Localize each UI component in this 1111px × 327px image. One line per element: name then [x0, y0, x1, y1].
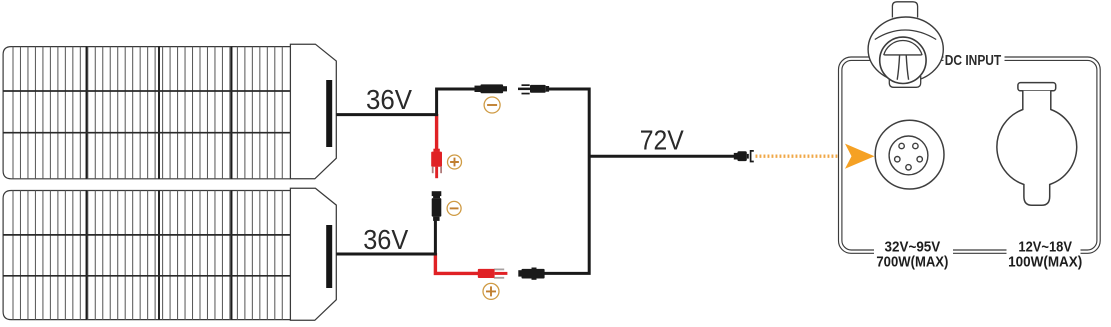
plus polarity symbol (bottom pair) — [483, 283, 499, 299]
DC input cover collar arc — [875, 30, 936, 40]
DC input cover bottom tab — [889, 76, 920, 87]
solar panel PV2 terminal bar — [326, 225, 332, 288]
MC4 female connector PV2 negative (up) — [432, 191, 442, 221]
solar panel PV2 cell boundary lines — [87, 191, 232, 320]
svg-text:100W(MAX): 100W(MAX) — [1008, 254, 1082, 271]
power station DC input panel outer border — [839, 57, 1101, 253]
DC input cover face rim — [884, 41, 922, 56]
wire PV2 output to negative connector — [336, 221, 435, 254]
DC input cover body — [868, 17, 943, 82]
solar panel PV1 horizontal busbars — [3, 91, 290, 133]
orange arrow into DC input — [845, 144, 875, 169]
svg-text:36V: 36V — [366, 84, 412, 115]
DC input cover top tab — [892, 2, 917, 18]
wire string loop right side — [544, 89, 589, 273]
minus polarity symbol (PV2 negative) — [447, 201, 461, 215]
DC input cover face — [880, 37, 926, 83]
svg-text:DC INPUT: DC INPUT — [945, 53, 1002, 69]
DC input cover T-handle — [884, 55, 921, 80]
solar panel PV2 junction flap — [290, 188, 336, 320]
wire 72V output — [589, 155, 734, 158]
car charger port body — [997, 91, 1077, 206]
plus polarity symbol (PV1 positive) — [448, 155, 462, 169]
wire PV2 positive red lead — [435, 253, 478, 273]
MC4 female connector PV1 negative — [475, 84, 508, 93]
border gaps (white masks) — [874, 54, 1081, 257]
5-pin DC input port outer ring — [875, 120, 944, 189]
car charger port lip — [1018, 83, 1056, 91]
svg-text:700W(MAX): 700W(MAX) — [876, 254, 948, 271]
svg-text:36V: 36V — [363, 224, 408, 255]
solar panel PV1 cell boundary lines — [87, 47, 232, 179]
MC4 female connector string return (black) — [518, 268, 544, 280]
solar panel PV2 body — [3, 191, 290, 320]
5-pin DC input port pins — [895, 143, 923, 170]
dashed connection line — [756, 154, 845, 157]
MC4 male connector string negative — [518, 84, 549, 94]
solar panel PV1 body — [3, 47, 290, 179]
5-pin DC input port inner ring — [889, 136, 928, 175]
svg-text:72V: 72V — [640, 124, 684, 155]
DC socket bracket — [751, 151, 754, 162]
solar panel PV2 horizontal busbars — [3, 235, 290, 276]
solar panel PV1 junction flap — [290, 44, 336, 179]
MC4 male connector string positive (red) — [478, 269, 508, 279]
MC4 male connector PV1 positive (red) — [431, 149, 442, 179]
power station DC input panel inner border — [842, 60, 1097, 250]
solar panel PV1 terminal bar — [326, 80, 332, 147]
wire PV1 positive red lead — [435, 114, 438, 150]
solar panel PV1 cell grid thin lines — [13, 47, 282, 179]
DC plug on 72V cable — [734, 151, 749, 161]
solar panel PV2 cell grid thin lines — [13, 191, 282, 320]
minus polarity symbol (top pair) — [484, 97, 500, 113]
wire PV1 output to negative connector — [336, 89, 475, 115]
